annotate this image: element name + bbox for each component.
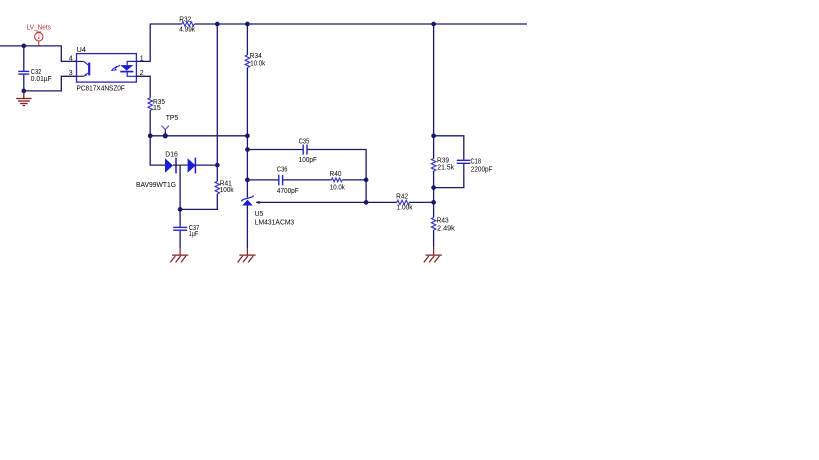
wire C32 top lead — [23, 46, 25, 71]
resistor R42 — [396, 194, 413, 212]
wire ref line to R42 — [260, 201, 397, 203]
wire C37 bottom lead — [179, 231, 181, 249]
svg-text:BAV99WT1G: BAV99WT1G — [136, 182, 176, 189]
node junction R42 — [431, 200, 436, 205]
wire C37 top lead — [179, 209, 181, 227]
node junction top at x=247 — [245, 22, 250, 27]
svg-text:0.01µF: 0.01µF — [31, 76, 52, 83]
svg-text:U4: U4 — [77, 47, 87, 54]
wire R43 bottom — [433, 230, 435, 247]
svg-text:R43: R43 — [437, 218, 449, 225]
node junction C32 bottom — [21, 89, 26, 94]
svg-text:R42: R42 — [396, 194, 408, 201]
node junction x=247 C35 branch — [245, 147, 250, 152]
svg-text:C32: C32 — [31, 69, 42, 76]
wire D16 branch from left junction — [150, 136, 165, 165]
svg-text:15: 15 — [153, 105, 161, 112]
resistor R41 — [215, 180, 234, 194]
node junction C37 top — [178, 207, 183, 212]
resistor R43 — [431, 218, 455, 233]
capacitor C18 — [457, 158, 493, 173]
resistor R35 — [148, 98, 165, 112]
ground signal under R43 — [424, 247, 442, 263]
node junction R39 bottom — [431, 185, 436, 190]
node junction C32 top — [21, 44, 26, 49]
svg-text:C35: C35 — [299, 138, 310, 145]
wire R39 bottom segment — [433, 171, 435, 202]
svg-text:C18: C18 — [471, 158, 482, 165]
wire between diodes — [173, 164, 188, 166]
node junction x=366 R40 — [364, 178, 369, 183]
svg-text:100pF: 100pF — [299, 157, 317, 164]
node junction x=247 TP wire — [245, 133, 250, 138]
svg-text:R40: R40 — [330, 171, 342, 178]
svg-text:1: 1 — [140, 55, 144, 62]
diode D16 first — [165, 151, 178, 173]
svg-text:100k: 100k — [220, 187, 234, 194]
wire R39/C18 top link — [434, 136, 464, 160]
node junction R39 top — [431, 133, 436, 138]
wire D16 mid tap down — [179, 165, 181, 209]
wire TP5 horizontal — [150, 135, 247, 137]
ground signal under C37 — [170, 248, 188, 262]
wire C36 branch left — [247, 179, 278, 181]
svg-text:U5: U5 — [255, 211, 264, 218]
capacitor C36 — [277, 167, 299, 196]
svg-text:LM431ACM3: LM431ACM3 — [255, 220, 294, 227]
node junction x=247 C36 branch — [245, 178, 250, 183]
svg-text:C36: C36 — [277, 167, 288, 174]
wire C35 branch left — [247, 149, 303, 151]
svg-text:21.5k: 21.5k — [437, 164, 454, 171]
svg-text:10.0k: 10.0k — [330, 185, 345, 192]
wire x=247 R34 to U5 — [246, 68, 248, 198]
wire vertical x=247 top segment — [246, 24, 248, 55]
node LV_Nets — [27, 25, 52, 46]
wire U5 anode down — [246, 206, 248, 249]
svg-text:10.0k: 10.0k — [250, 60, 265, 67]
node junction D16 right — [215, 163, 220, 168]
svg-text:TP5: TP5 — [166, 115, 179, 122]
svg-text:4: 4 — [69, 55, 73, 62]
wire vertical x=217 from top to D16 — [216, 24, 218, 165]
resistor R39 — [431, 158, 454, 172]
capacitor C35 — [299, 138, 317, 164]
diode LED in U4 — [111, 61, 136, 76]
svg-text:1µF: 1µF — [189, 231, 199, 238]
wire C32 bottom lead — [23, 75, 25, 91]
wire bottom return to pin 3 — [24, 76, 77, 91]
wire top bus y=24 — [150, 23, 527, 25]
svg-text:R32: R32 — [179, 16, 191, 23]
op-amp U5 shunt regulator — [241, 196, 294, 227]
svg-text:PC817X4NSZ0F: PC817X4NSZ0F — [77, 85, 125, 92]
wire C18 bottom link — [434, 164, 464, 188]
node junction x=366 ref wire — [364, 200, 369, 205]
wire LV net horizontal — [0, 46, 77, 62]
svg-text:3: 3 — [69, 70, 73, 77]
wire C36 to R40 — [283, 179, 332, 181]
wire pin1 riser — [136, 24, 150, 61]
resistor R34 — [245, 53, 265, 67]
ground earth under C32 — [16, 93, 32, 106]
svg-text:4.99k: 4.99k — [179, 27, 195, 34]
svg-text:D16: D16 — [165, 151, 178, 158]
svg-text:2200pF: 2200pF — [471, 166, 493, 173]
wire pin2 to R35 — [136, 76, 150, 98]
op-amp U4 optocoupler box — [77, 47, 137, 93]
wire R40 to corner — [342, 179, 366, 181]
wire C35 branch right — [307, 150, 366, 203]
node junction top at x=434 — [431, 22, 436, 27]
wire R41 bottom to C37 junction — [180, 194, 217, 210]
svg-text:LV_Nets: LV_Nets — [27, 25, 52, 32]
diode D16 second — [136, 158, 196, 189]
ground signal under U5 — [238, 248, 256, 262]
transistor Q phototransistor in U4 — [77, 61, 90, 76]
wire diode2 to junction — [195, 164, 217, 166]
node junction left TP wire — [148, 133, 153, 138]
wire R42 to node — [409, 201, 433, 203]
resistor R40 — [330, 171, 346, 191]
svg-text:2.49k: 2.49k — [437, 225, 455, 232]
wire vertical x=434 top to R39 — [433, 24, 435, 159]
svg-text:1.00k: 1.00k — [397, 204, 413, 211]
wire R35 to junction — [149, 110, 151, 135]
node junction top at x=217 — [215, 22, 220, 27]
capacitor C32 — [18, 69, 51, 83]
capacitor C37 — [173, 225, 199, 238]
wire to R43 — [433, 202, 435, 217]
resistor R32 — [179, 16, 195, 33]
svg-text:R34: R34 — [250, 53, 262, 60]
wire R41 top lead — [216, 165, 218, 181]
svg-text:4700pF: 4700pF — [277, 188, 299, 195]
node TP5 test point — [162, 115, 179, 139]
